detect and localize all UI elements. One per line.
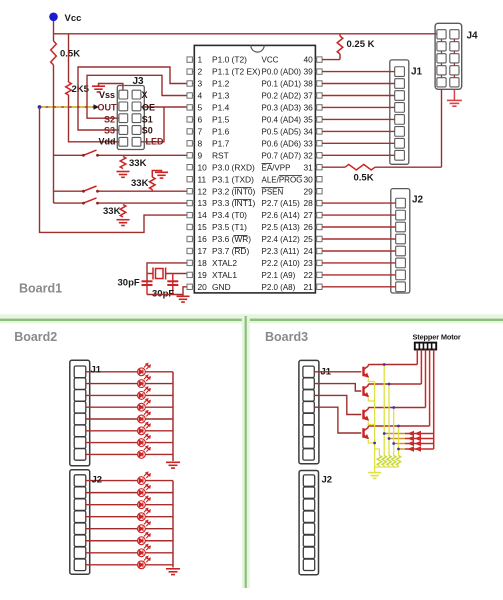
wire pin26 to J2: [322, 226, 396, 228]
wire LED row 7: [86, 442, 138, 444]
IC pin 14 P3.4 (T0): [187, 212, 192, 217]
svg-text:P3.5 (T1): P3.5 (T1): [212, 222, 247, 232]
resistor R6 0.25K: [337, 36, 343, 54]
svg-text:S0: S0: [142, 126, 153, 136]
wire J3 LED to OE wire: [141, 107, 164, 142]
wire caps to ground: [147, 294, 183, 296]
svg-text:J2: J2: [412, 195, 424, 206]
svg-text:Board3: Board3: [265, 330, 308, 344]
junction: [383, 363, 386, 366]
svg-text:40: 40: [303, 55, 313, 65]
svg-text:17: 17: [198, 246, 208, 256]
ground G6 (J4): [447, 100, 462, 106]
ground G7 (board2): [166, 462, 180, 468]
svg-text:X: X: [142, 90, 148, 100]
IC pin 29 PSEN: [317, 189, 322, 194]
svg-text:P2.6 (A14): P2.6 (A14): [262, 211, 301, 220]
LED D13: [138, 520, 151, 532]
IC pin 20 GND: [187, 284, 192, 289]
svg-text:20: 20: [198, 282, 208, 292]
wire J1.4 to Q4 base: [314, 407, 361, 433]
IC pin 2 P1.1 (T2 EX): [187, 69, 192, 74]
IC pin 6 P1.5: [187, 117, 192, 122]
resistor R2 2K5: [66, 82, 72, 95]
wire J3 OE to pin5: [141, 106, 187, 108]
yellow wire tap5: [375, 449, 380, 456]
resistor R3 33K (RST pulldown): [120, 157, 126, 169]
svg-text:P2.2 (A10): P2.2 (A10): [262, 259, 301, 268]
switch SW2 (INT0): [54, 190, 84, 192]
svg-text:S3: S3: [104, 126, 115, 136]
svg-text:10: 10: [198, 162, 208, 172]
wire J1.2 to Q2 base: [314, 384, 361, 391]
resistor RY1 (yellow): [377, 456, 381, 466]
svg-text:27: 27: [303, 210, 313, 220]
svg-text:13: 13: [198, 198, 208, 208]
Vcc power rail wire: [53, 21, 55, 34]
svg-text:28: 28: [303, 198, 313, 208]
IC pin 8 P1.7: [187, 141, 192, 146]
LED D16: [138, 556, 151, 568]
svg-text:P2.4 (A12): P2.4 (A12): [262, 235, 301, 244]
svg-text:P1.7: P1.7: [212, 138, 230, 148]
resistor RY3 (yellow): [387, 456, 391, 466]
wire LED row 6: [86, 430, 138, 432]
yellow wire tap1: [383, 365, 385, 456]
svg-text:P0.2 (AD2): P0.2 (AD2): [262, 92, 302, 101]
LED D10: [138, 484, 151, 496]
ground G8 (board2): [166, 569, 180, 575]
yellow resistor bus: [375, 466, 399, 468]
LED D11: [138, 496, 151, 508]
wire stepper pin2: [420, 350, 422, 385]
wire pin33 to J1: [322, 142, 395, 144]
svg-text:Board2: Board2: [14, 330, 57, 344]
LED D4: [138, 399, 151, 411]
svg-text:J4: J4: [467, 31, 479, 42]
LED bus wire (J2 board2): [172, 481, 174, 568]
LED D15: [138, 544, 151, 556]
wire J3 S2 to pin4: [87, 75, 187, 118]
wire pin38 to J1: [322, 83, 395, 85]
connector J2 (board1): [391, 189, 410, 293]
IC pin 39 P0.0 (AD0): [317, 69, 322, 74]
wire LED row 3: [86, 394, 138, 396]
LED D12: [138, 508, 151, 520]
svg-text:0.5K: 0.5K: [354, 173, 374, 184]
wire pin25 to J2: [322, 238, 396, 240]
resistor R4 33K (INT0): [150, 177, 156, 190]
svg-text:EA/VPP: EA/VPP: [262, 163, 291, 172]
wire pin39 to J1: [322, 71, 395, 73]
yellow wire tap4: [398, 426, 400, 456]
wire pin18 XTAL2: [147, 263, 187, 281]
wire LED row 2: [86, 383, 138, 385]
LED D7: [138, 434, 151, 446]
IC pin 5 P1.4: [187, 105, 192, 110]
wire pin35 to J1: [322, 118, 395, 120]
ground G4: [117, 220, 130, 226]
IC pin 31 EA/VPP: [317, 165, 322, 170]
LED D5: [138, 411, 151, 423]
capacitor C2 30pF: [172, 274, 174, 295]
IC pin 28 P2.7 (A15): [317, 200, 322, 205]
connector J3: [117, 86, 144, 150]
wire pin32 to J1: [322, 154, 395, 156]
node OUT junction: [38, 105, 42, 109]
wire Q1 collector rail: [368, 364, 417, 366]
wire pin36 to J1: [322, 106, 395, 108]
svg-text:0.5K: 0.5K: [60, 49, 80, 60]
svg-text:J1: J1: [411, 67, 423, 78]
junction: [397, 448, 400, 451]
wire R1 to switches (pull rail): [53, 65, 55, 203]
LED bus wire (J1 board2): [172, 372, 174, 461]
svg-text:P3.4 (T0): P3.4 (T0): [212, 210, 247, 220]
IC pin 23 P2.2 (A10): [317, 260, 322, 265]
LED D6: [138, 422, 151, 434]
ground G3: [155, 172, 168, 178]
yellow wire tap2: [388, 384, 390, 456]
svg-text:3: 3: [198, 79, 203, 89]
node OUT yellow wire: [40, 106, 98, 108]
svg-text:P0.7 (AD7): P0.7 (AD7): [262, 151, 302, 160]
svg-text:PSEN: PSEN: [262, 187, 284, 196]
IC pin 22 P2.1 (A9): [317, 272, 322, 277]
svg-text:S2: S2: [104, 115, 115, 125]
svg-text:22: 22: [303, 270, 313, 280]
yellow wire tap3: [393, 408, 395, 456]
svg-text:Vdd: Vdd: [99, 137, 116, 147]
svg-text:2: 2: [198, 67, 203, 77]
IC pin 12 P3.2 (INT0): [187, 189, 192, 194]
IC pin 7 P1.6: [187, 129, 192, 134]
wire LED row 11: [86, 504, 138, 506]
svg-text:J1: J1: [91, 365, 102, 376]
wire pin19 XTAL1: [166, 273, 187, 275]
IC pin 40 VCC: [317, 57, 322, 62]
svg-text:XTAL1: XTAL1: [212, 270, 237, 280]
yellow wire Q4 emitter: [368, 440, 374, 443]
svg-text:P2.0 (A8): P2.0 (A8): [262, 283, 296, 292]
IC pin 4 P1.3: [187, 93, 192, 98]
OUT arrow: [94, 104, 100, 109]
svg-text:RST: RST: [212, 150, 229, 160]
svg-text:P0.5 (AD5): P0.5 (AD5): [262, 128, 302, 137]
wire J4 right column to ground: [453, 89, 455, 100]
wire J1.1 to Q1 base: [314, 371, 361, 373]
IC pin 15 P3.5 (T1): [187, 224, 192, 229]
wire pin40 VCC: [322, 59, 340, 61]
IC pin 35 P0.4 (AD4): [317, 117, 322, 122]
wire LED row 14: [86, 540, 138, 542]
wire LED row 12: [86, 516, 138, 518]
wire pin31 EA/VPP: [322, 166, 345, 168]
IC pin 11 P3.1 (TXD): [187, 177, 192, 182]
wire Vcc to R1: [53, 34, 55, 41]
IC pin 13 P3.3 (INT1): [187, 200, 192, 205]
svg-text:4: 4: [198, 91, 203, 101]
svg-text:Board1: Board1: [19, 282, 62, 296]
diode D20 flyback: [399, 448, 406, 450]
diode D19 flyback: [394, 443, 405, 445]
wire LED row 8: [86, 453, 138, 455]
svg-text:34: 34: [303, 127, 313, 137]
svg-text:35: 35: [303, 115, 313, 125]
resistor RY2 (yellow): [382, 456, 386, 466]
svg-text:P0.3 (AD3): P0.3 (AD3): [262, 104, 302, 113]
transistor Q3: [364, 408, 369, 421]
yellow emitter bus to ground: [374, 382, 376, 473]
svg-text:OUT: OUT: [98, 103, 118, 113]
stepper motor connector: [415, 343, 436, 350]
svg-text:6: 6: [198, 115, 203, 125]
wire R4 to ground: [152, 171, 161, 178]
svg-text:P0.1 (AD1): P0.1 (AD1): [262, 80, 302, 89]
svg-text:J3: J3: [133, 76, 145, 87]
wire LED row 16: [86, 564, 138, 566]
svg-text:J2: J2: [92, 475, 103, 486]
yellow wire Q1 emitter: [368, 379, 374, 382]
svg-text:P1.4: P1.4: [212, 103, 230, 113]
green divider horizontal: [0, 314, 503, 323]
svg-text:P3.0 (RXD): P3.0 (RXD): [212, 162, 255, 172]
svg-text:11: 11: [198, 174, 207, 184]
svg-text:XTAL2: XTAL2: [212, 258, 237, 268]
wire pin21 to J2: [322, 286, 396, 288]
ground G9 (board3, yellow): [368, 473, 381, 479]
svg-text:26: 26: [303, 222, 313, 232]
svg-text:GND: GND: [212, 282, 231, 292]
ground G2: [117, 172, 130, 178]
IC pin 34 P0.5 (AD5): [317, 129, 322, 134]
svg-text:P1.6: P1.6: [212, 127, 230, 137]
svg-text:0.25 K: 0.25 K: [347, 39, 375, 50]
wire stepper pin1: [416, 350, 418, 365]
overline marks: [234, 164, 303, 248]
wire pin37 to J1: [322, 95, 395, 97]
resistor R1 0.5K: [51, 41, 57, 65]
IC pin 36 P0.3 (AD3): [317, 105, 322, 110]
svg-text:33K: 33K: [131, 178, 149, 189]
svg-text:VCC: VCC: [262, 56, 279, 65]
junction: [392, 406, 395, 409]
svg-text:15: 15: [198, 222, 208, 232]
junction: [388, 437, 391, 440]
wire LED row 10: [86, 492, 138, 494]
junction: [392, 442, 395, 445]
wire LED row 4: [86, 406, 138, 408]
svg-text:32: 32: [303, 150, 313, 160]
svg-text:7: 7: [198, 127, 203, 137]
switch SW3 (INT1): [54, 202, 84, 204]
svg-text:Vcc: Vcc: [65, 13, 82, 24]
svg-text:16: 16: [198, 234, 208, 244]
transistor Q4: [364, 426, 369, 439]
connector J1 (board1): [390, 60, 409, 164]
svg-text:5: 5: [198, 103, 203, 113]
transistor Q2: [364, 384, 369, 397]
IC pin 24 P2.3 (A11): [317, 248, 322, 253]
transistor Q1: [364, 365, 369, 378]
svg-text:39: 39: [303, 67, 313, 77]
connector J1 (board3): [299, 360, 319, 463]
svg-text:25: 25: [303, 234, 313, 244]
wire pin34 to J1: [322, 130, 395, 132]
resistor R7 0.5K: [345, 164, 375, 170]
LED D3: [138, 387, 151, 399]
wire pin20 GND: [183, 287, 187, 296]
resistor RY4 (yellow): [392, 456, 396, 466]
svg-text:19: 19: [198, 270, 208, 280]
wire pin23 to J2: [322, 262, 396, 264]
crystal X1: [147, 268, 166, 280]
IC pin 27 P2.6 (A14): [317, 212, 322, 217]
wire pin24 to J2: [322, 250, 396, 252]
svg-text:P1.2: P1.2: [212, 79, 230, 89]
wire OUT to pin14 T0: [40, 107, 188, 232]
IC pin 9 RST: [187, 153, 192, 158]
svg-text:36: 36: [303, 103, 313, 113]
svg-text:OE: OE: [142, 103, 155, 113]
wire LED row 9: [86, 480, 138, 482]
connector J4: [435, 23, 462, 89]
wire LED row 5: [86, 418, 138, 420]
resistor R5 33K (INT1): [120, 205, 126, 218]
wire Q4 collector rail: [368, 425, 429, 427]
svg-text:12: 12: [198, 186, 208, 196]
svg-text:Vss: Vss: [99, 90, 115, 100]
svg-text:33K: 33K: [103, 206, 121, 217]
svg-text:14: 14: [198, 210, 208, 220]
wire LED row 13: [86, 528, 138, 530]
IC pin 19 XTAL1: [187, 272, 192, 277]
svg-text:P2.1 (A9): P2.1 (A9): [262, 271, 296, 280]
junction: [383, 432, 386, 435]
connector J1 (board2): [70, 360, 90, 466]
LED D14: [138, 532, 151, 544]
wire Vss to ground: [99, 84, 123, 91]
svg-text:21: 21: [303, 282, 313, 292]
resistor RY5 (yellow): [396, 456, 400, 466]
yellow wire Q3 emitter: [368, 422, 374, 425]
svg-text:J2: J2: [322, 475, 333, 486]
diode D18 flyback: [389, 438, 405, 440]
IC pin 30 ALE/PROG: [317, 177, 322, 182]
wire R2 to J3 Vdd: [69, 95, 119, 142]
svg-text:P2.5 (A13): P2.5 (A13): [262, 223, 301, 232]
svg-text:P1.1 (T2 EX): P1.1 (T2 EX): [212, 67, 261, 77]
wire stepper pin3: [425, 350, 427, 408]
wire J3 S3 to pin3: [78, 67, 187, 130]
IC pin 37 P0.2 (AD2): [317, 93, 322, 98]
wire LED row 1: [86, 371, 138, 373]
svg-text:P3.1 (TXD): P3.1 (TXD): [212, 174, 254, 184]
svg-text:33: 33: [303, 138, 313, 148]
IC pin 3 P1.2: [187, 81, 192, 86]
diode D17 flyback: [384, 433, 405, 435]
svg-text:31: 31: [303, 162, 313, 172]
wire J1.3 to Q3 base: [314, 395, 361, 414]
svg-text:P1.3: P1.3: [212, 91, 230, 101]
junction: [397, 425, 400, 428]
svg-text:24: 24: [303, 246, 313, 256]
svg-text:P1.5: P1.5: [212, 115, 230, 125]
switch SW1 (RST): [54, 154, 84, 156]
wire LED row 15: [86, 552, 138, 554]
wire pin22 to J2: [322, 274, 396, 276]
wire Q2 collector rail: [368, 383, 421, 385]
IC pin 17 P3.7 (RD): [187, 248, 192, 253]
IC pin 26 P2.5 (A13): [317, 224, 322, 229]
LED D8: [138, 446, 151, 458]
svg-text:P0.0 (AD0): P0.0 (AD0): [262, 68, 302, 77]
J4 internal wires: [441, 34, 443, 82]
wire Q3 collector rail: [368, 407, 425, 409]
wire stepper pin4: [429, 350, 431, 427]
yellow wire Q2 emitter: [368, 398, 374, 401]
svg-text:23: 23: [303, 258, 313, 268]
svg-text:S1: S1: [142, 115, 153, 125]
IC pin 38 P0.1 (AD1): [317, 81, 322, 86]
svg-text:29: 29: [303, 186, 313, 196]
svg-text:30pF: 30pF: [118, 278, 140, 289]
svg-text:LED: LED: [146, 137, 165, 147]
LED D2: [138, 375, 151, 387]
connector J2 (board3): [299, 471, 318, 575]
green divider vertical: [242, 316, 250, 588]
IC pin 1 P1.0 (T2): [187, 57, 192, 62]
svg-text:8: 8: [198, 138, 203, 148]
LED D9: [138, 472, 151, 484]
IC pin 32 P0.7 (AD7): [317, 153, 322, 158]
LED D1: [138, 363, 151, 375]
capacitor C1 30pF: [146, 281, 148, 295]
ground G5 (IC GND): [177, 296, 190, 302]
IC pin 25 P2.4 (A12): [317, 236, 322, 241]
svg-text:33K: 33K: [129, 158, 147, 169]
svg-text:P1.0 (T2): P1.0 (T2): [212, 55, 247, 65]
IC pin 16 P3.6 (WR): [187, 236, 192, 241]
Vcc node: [49, 12, 58, 21]
svg-text:18: 18: [198, 258, 208, 268]
ground G1 (J3 Vss): [92, 86, 105, 92]
svg-text:P2.3 (A11): P2.3 (A11): [262, 247, 300, 256]
wire Vcc to R2: [68, 34, 70, 82]
svg-text:P0.6 (AD6): P0.6 (AD6): [262, 139, 302, 148]
IC notch: [251, 45, 264, 52]
wire pin28 to J2: [322, 202, 396, 204]
svg-text:Stepper Motor: Stepper Motor: [413, 332, 461, 341]
svg-text:37: 37: [303, 91, 313, 101]
junction: [373, 442, 376, 445]
svg-text:38: 38: [303, 79, 313, 89]
junction: [388, 383, 391, 386]
wire J4 left column to EA: [441, 89, 443, 167]
svg-text:P2.7 (A15): P2.7 (A15): [262, 199, 301, 208]
svg-text:1: 1: [198, 55, 203, 65]
svg-text:ALE/PROG: ALE/PROG: [262, 175, 303, 184]
IC pin 10 P3.0 (RXD): [187, 165, 192, 170]
connector J2 (board2): [70, 470, 90, 574]
wire pin27 to J2: [322, 214, 396, 216]
IC pin 18 XTAL2: [187, 260, 192, 265]
svg-text:9: 9: [198, 150, 203, 160]
svg-text:P0.4 (AD4): P0.4 (AD4): [262, 116, 302, 125]
svg-text:30: 30: [303, 174, 313, 184]
op IC U1 8051 body: [194, 45, 315, 293]
IC pin 33 P0.6 (AD6): [317, 141, 322, 146]
